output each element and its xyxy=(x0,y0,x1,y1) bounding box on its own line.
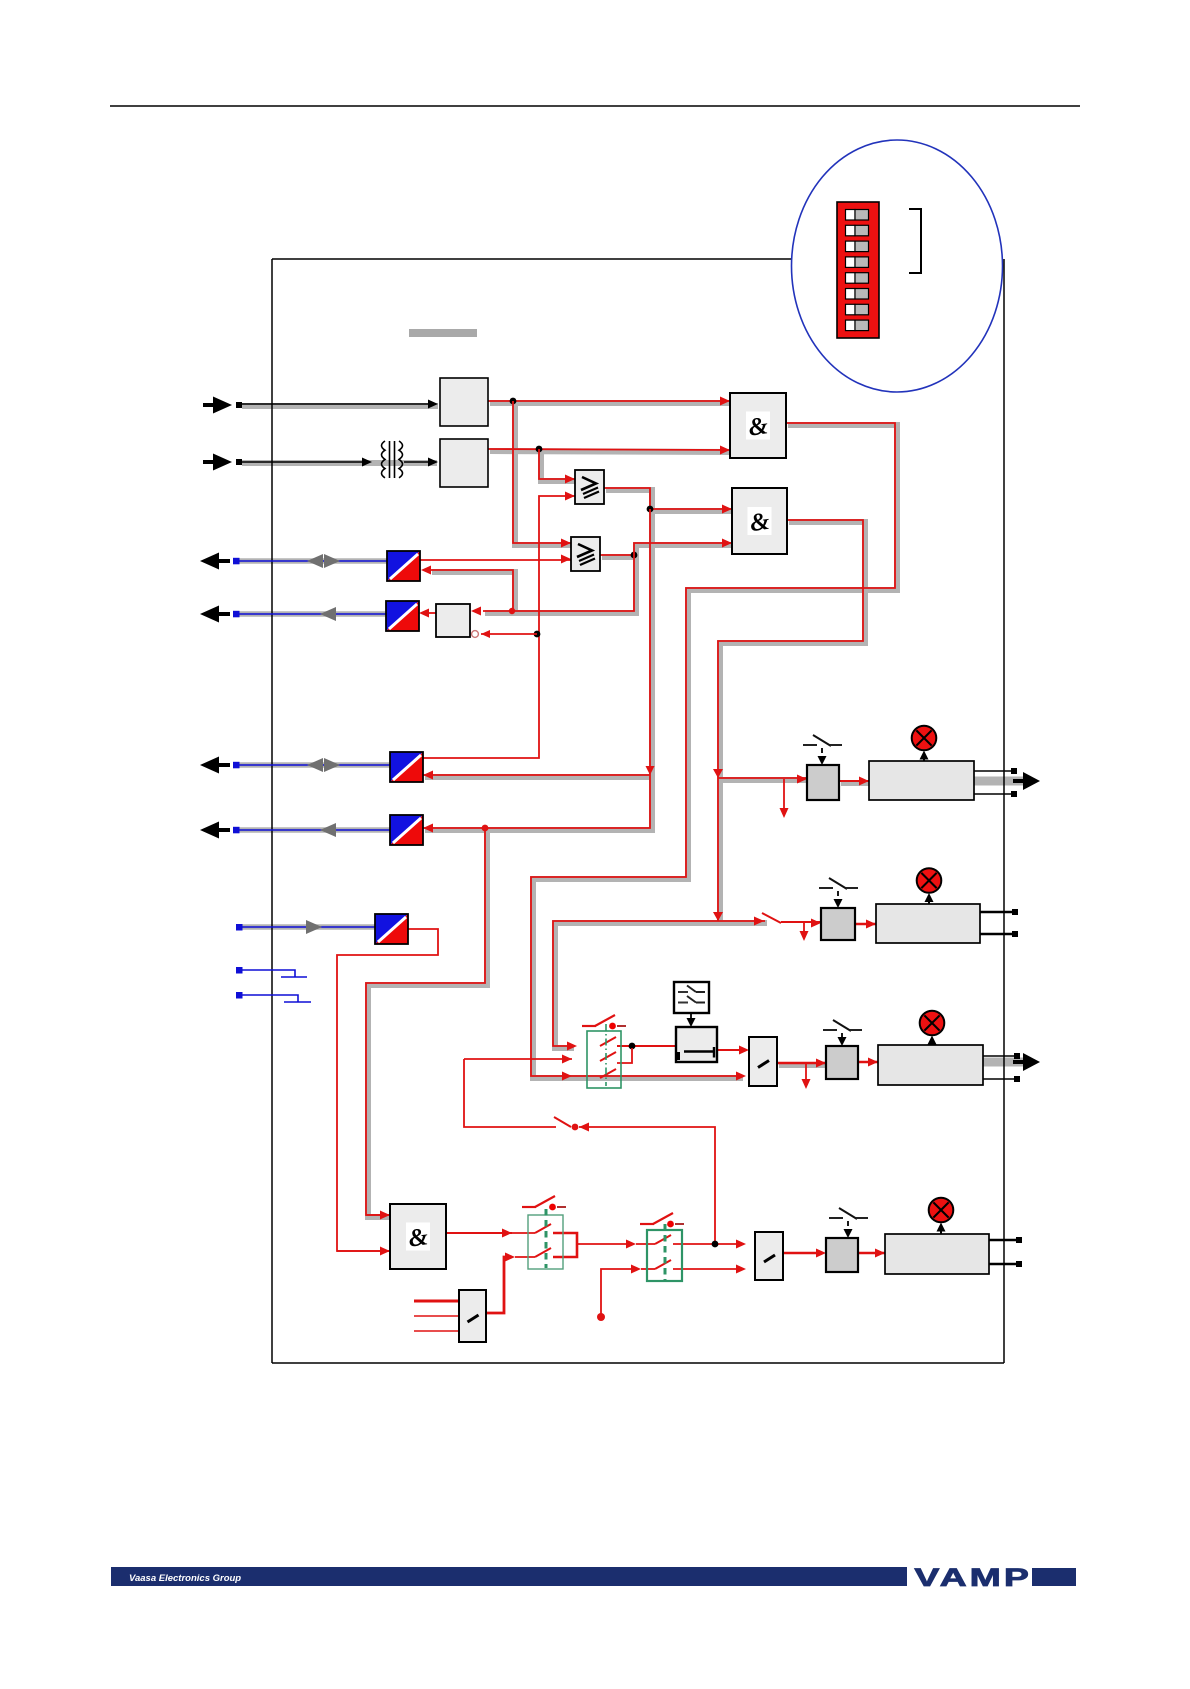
svg-text:Vaasa Electronics Group: Vaasa Electronics Group xyxy=(129,1573,241,1584)
svg-text:VAMP: VAMP xyxy=(914,1563,1032,1591)
